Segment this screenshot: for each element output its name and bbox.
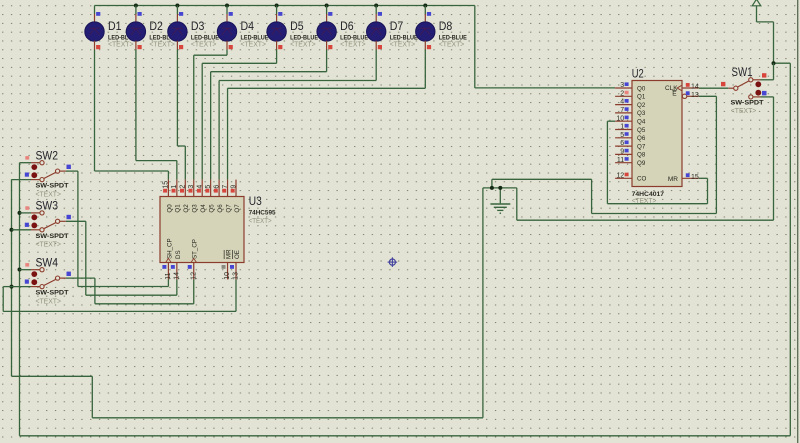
node VCC-SW3 xyxy=(18,211,22,215)
svg-text:D7: D7 xyxy=(390,19,404,33)
node bus-D3 xyxy=(175,4,179,8)
svg-text:MR: MR xyxy=(225,249,232,259)
origin marker xyxy=(388,257,398,267)
svg-text:<TEXT>: <TEXT> xyxy=(731,108,757,115)
U3 pin 12 (ST_CP) xyxy=(188,239,199,280)
U3 pin 2 (Q2) xyxy=(180,180,191,213)
wire VCC terminal to node xyxy=(756,6,758,22)
U3 pin 7 (Q7) xyxy=(222,180,233,213)
U3 pin 10 (MR) xyxy=(222,249,233,280)
U2 pin 7 (Q3) xyxy=(615,107,646,117)
wire U2 E to ground xyxy=(492,96,717,213)
wire GND rail bottom jog xyxy=(12,375,93,377)
svg-text:SW-SPDT: SW-SPDT xyxy=(36,290,69,297)
svg-text:OE: OE xyxy=(234,250,241,259)
U2 pin 4 (Q2) xyxy=(615,99,646,109)
svg-text:Q3: Q3 xyxy=(192,204,199,213)
svg-text:D6: D6 xyxy=(340,19,354,33)
svg-text:12: 12 xyxy=(190,272,197,280)
node bus-D4 xyxy=(225,4,229,8)
node VCC-SW4 xyxy=(18,268,22,272)
svg-text:U3: U3 xyxy=(249,194,262,208)
svg-text:SW-SPDT: SW-SPDT xyxy=(36,183,69,190)
wire VCC node right xyxy=(774,62,791,64)
svg-text:<TEXT>: <TEXT> xyxy=(439,42,465,49)
U2 pin 13 (E) xyxy=(672,90,699,99)
svg-text:3: 3 xyxy=(188,185,195,189)
wire SW3 pole to U3 DS xyxy=(86,221,177,295)
wire D8 to U3 xyxy=(228,50,426,180)
wire SW4 pole to U3 ST_CP xyxy=(95,278,194,304)
switch SW3 SW-SPDT xyxy=(12,199,86,249)
node ground B xyxy=(498,186,502,190)
svg-text:5: 5 xyxy=(205,185,212,189)
wire GND riser to ground symbol xyxy=(482,188,484,418)
svg-text:SW2: SW2 xyxy=(36,149,59,163)
wire ground cross-link xyxy=(483,187,517,189)
wire GND left rail xyxy=(11,179,13,376)
svg-text:4: 4 xyxy=(197,185,204,189)
svg-text:14: 14 xyxy=(174,272,181,280)
svg-text:Q3: Q3 xyxy=(637,110,646,117)
wire VCC bottom horizontal xyxy=(20,435,791,437)
svg-text:LED-BLUE: LED-BLUE xyxy=(439,34,467,41)
svg-text:5: 5 xyxy=(620,132,624,139)
switch SW2 SW-SPDT xyxy=(12,149,78,199)
svg-text:<TEXT>: <TEXT> xyxy=(108,42,134,49)
svg-text:D5: D5 xyxy=(290,19,304,33)
svg-text:SW4: SW4 xyxy=(36,256,59,270)
svg-text:U2: U2 xyxy=(632,66,644,80)
svg-text:Q1: Q1 xyxy=(175,204,182,213)
wire GND rail to U3 OE xyxy=(3,279,236,311)
U3 pin 15 (Q0) xyxy=(163,180,174,213)
wire D2 to U3 xyxy=(136,50,177,180)
svg-text:LED-BLUE: LED-BLUE xyxy=(241,34,269,41)
svg-text:D2: D2 xyxy=(149,19,163,33)
U3 pin 4 (Q4) xyxy=(197,180,208,213)
switch SW4 SW-SPDT xyxy=(12,256,95,306)
U2 pin 14 (CLK) xyxy=(665,83,699,92)
wire bus to U2 Q0 xyxy=(474,6,476,88)
svg-text:<TEXT>: <TEXT> xyxy=(36,192,62,199)
svg-text:6: 6 xyxy=(213,185,220,189)
svg-text:MR: MR xyxy=(668,176,678,183)
U3 pin 11 (SH_CP) xyxy=(162,238,173,279)
svg-text:Q5: Q5 xyxy=(209,204,216,213)
svg-text:DS: DS xyxy=(175,250,182,259)
ground symbol xyxy=(490,188,510,214)
svg-text:Q7: Q7 xyxy=(637,143,646,150)
node bus-D7 xyxy=(374,4,378,8)
U2 pin 2 (Q1) xyxy=(615,90,646,100)
wire VCC left rail to switches xyxy=(19,163,21,436)
LED D5 xyxy=(267,6,318,50)
U2 pin 9 (Q8) xyxy=(615,149,646,159)
svg-text:Q5: Q5 xyxy=(637,127,646,134)
LED D6 xyxy=(317,6,368,50)
svg-text:LED-BLUE: LED-BLUE xyxy=(290,34,318,41)
wire D1 to U3 xyxy=(95,50,169,180)
svg-text:9: 9 xyxy=(230,185,237,189)
LED D1 xyxy=(85,6,136,50)
svg-text:9: 9 xyxy=(620,149,624,156)
svg-text:3: 3 xyxy=(620,82,624,89)
svg-text:7: 7 xyxy=(620,107,624,114)
node GND-SW4 xyxy=(10,285,14,289)
svg-text:Q2: Q2 xyxy=(183,204,190,213)
svg-text:1: 1 xyxy=(620,124,624,131)
svg-text:7: 7 xyxy=(222,185,229,189)
svg-text:SW1: SW1 xyxy=(732,65,753,79)
svg-text:D1: D1 xyxy=(108,19,122,33)
svg-text:<TEXT>: <TEXT> xyxy=(241,42,267,49)
svg-text:CO: CO xyxy=(637,176,646,183)
svg-text:<TEXT>: <TEXT> xyxy=(149,42,175,49)
LED D2 xyxy=(126,6,177,50)
svg-text:14: 14 xyxy=(691,84,699,91)
svg-text:LED-BLUE: LED-BLUE xyxy=(191,34,219,41)
svg-text:SH_CP: SH_CP xyxy=(166,238,173,259)
node ground A xyxy=(490,186,494,190)
wire D3 to U3 xyxy=(177,50,185,180)
node bus-D8 xyxy=(423,4,427,8)
svg-text:Q0: Q0 xyxy=(166,204,173,213)
U3 pin 3 (Q3) xyxy=(188,180,199,213)
wire D6 to U3 xyxy=(211,50,327,180)
svg-text:10: 10 xyxy=(224,272,231,280)
U3 pin 5 (Q5) xyxy=(205,180,216,213)
U3 pin 1 (Q1) xyxy=(171,180,182,213)
svg-text:Q2: Q2 xyxy=(637,102,646,109)
svg-text:13: 13 xyxy=(691,92,699,99)
wire ground to SW1 lower throw xyxy=(517,97,774,220)
svg-text:Q1: Q1 xyxy=(637,94,646,101)
decade counter U2 74HC4017 xyxy=(632,66,682,205)
U2 pin 11 (Q9) xyxy=(615,157,646,167)
svg-text:ST_CP: ST_CP xyxy=(192,239,199,259)
svg-text:<TEXT>: <TEXT> xyxy=(390,42,416,49)
LED D7 xyxy=(367,6,418,50)
svg-text:74HC595: 74HC595 xyxy=(249,209,277,216)
U2 pin 15 (MR) xyxy=(668,173,699,183)
wire SW2 pole to U3 SH_CP xyxy=(78,171,168,286)
svg-text:D4: D4 xyxy=(241,19,255,33)
svg-text:15: 15 xyxy=(691,174,699,181)
U2 pin 12 (CO) xyxy=(615,172,646,182)
svg-text:11: 11 xyxy=(617,157,624,164)
shift register U3 74HC595 xyxy=(160,194,276,263)
svg-text:<TEXT>: <TEXT> xyxy=(191,42,217,49)
node bus-D5 xyxy=(275,4,279,8)
node bus-D2 xyxy=(134,4,138,8)
svg-text:LED-BLUE: LED-BLUE xyxy=(340,34,368,41)
U2 pin 1 (Q5) xyxy=(615,124,646,134)
svg-text:Q0: Q0 xyxy=(637,85,646,92)
svg-text:12: 12 xyxy=(616,172,624,179)
U3 pin 14 (DS) xyxy=(171,250,182,279)
svg-text:Q8: Q8 xyxy=(637,152,646,159)
svg-text:15: 15 xyxy=(163,181,170,189)
svg-text:LED-BLUE: LED-BLUE xyxy=(390,34,418,41)
node bus-D6 xyxy=(325,4,329,8)
svg-text:SW-SPDT: SW-SPDT xyxy=(731,100,764,107)
sheet border (right edge) xyxy=(797,0,799,443)
svg-text:11: 11 xyxy=(165,272,172,279)
svg-text:1: 1 xyxy=(171,185,178,189)
LED D4 xyxy=(217,6,268,50)
U3 pin 6 (Q6) xyxy=(213,180,224,213)
svg-text:Q6: Q6 xyxy=(637,135,646,142)
svg-text:Q4: Q4 xyxy=(637,119,646,126)
U3 pin 13 (OE) xyxy=(230,250,241,280)
wire LED anode bus xyxy=(95,5,475,7)
svg-text:<TEXT>: <TEXT> xyxy=(249,218,272,225)
LED D3 xyxy=(168,6,219,50)
U2 pin 3 (Q0) xyxy=(615,82,646,92)
svg-text:D8: D8 xyxy=(439,19,453,33)
svg-text:<TEXT>: <TEXT> xyxy=(340,42,366,49)
svg-text:Q7: Q7 xyxy=(234,204,241,213)
svg-text:<TEXT>: <TEXT> xyxy=(290,42,316,49)
U3 pin 9 (Q7) xyxy=(230,180,241,213)
U2 pin 10 (Q4) xyxy=(615,115,646,125)
switch SW1 SW-SPDT xyxy=(699,63,774,115)
svg-text:<TEXT>: <TEXT> xyxy=(36,242,62,249)
node GND-SW3 xyxy=(10,228,14,232)
svg-text:SW3: SW3 xyxy=(36,199,59,213)
wire D4 to U3 xyxy=(194,50,227,180)
svg-text:Q9: Q9 xyxy=(637,160,646,167)
LED D8 xyxy=(416,6,467,50)
svg-text:10: 10 xyxy=(616,115,624,122)
svg-text:Q4: Q4 xyxy=(200,204,207,213)
wire U2 Q4 to U2 MR (reset loop) xyxy=(607,121,707,204)
wire VCC right-side vertical xyxy=(789,63,791,436)
U2 pin 6 (Q7) xyxy=(615,140,646,150)
U2 pin 5 (Q6) xyxy=(615,132,646,142)
svg-text:Q6: Q6 xyxy=(217,204,224,213)
svg-text:13: 13 xyxy=(233,272,240,280)
node VCC junction top-right xyxy=(772,61,776,65)
wire D7 to U3 xyxy=(219,50,376,180)
svg-text:2: 2 xyxy=(180,185,187,189)
svg-text:E: E xyxy=(672,90,677,97)
svg-text:Q7: Q7 xyxy=(225,204,232,213)
wire D5 to U3 xyxy=(202,50,276,180)
svg-text:SW-SPDT: SW-SPDT xyxy=(36,233,69,240)
svg-text:4: 4 xyxy=(620,99,624,106)
svg-text:6: 6 xyxy=(620,140,624,147)
svg-text:<TEXT>: <TEXT> xyxy=(36,299,62,306)
svg-text:2: 2 xyxy=(620,90,624,97)
svg-text:D3: D3 xyxy=(191,19,205,33)
power terminal VCC arrow xyxy=(752,0,761,6)
